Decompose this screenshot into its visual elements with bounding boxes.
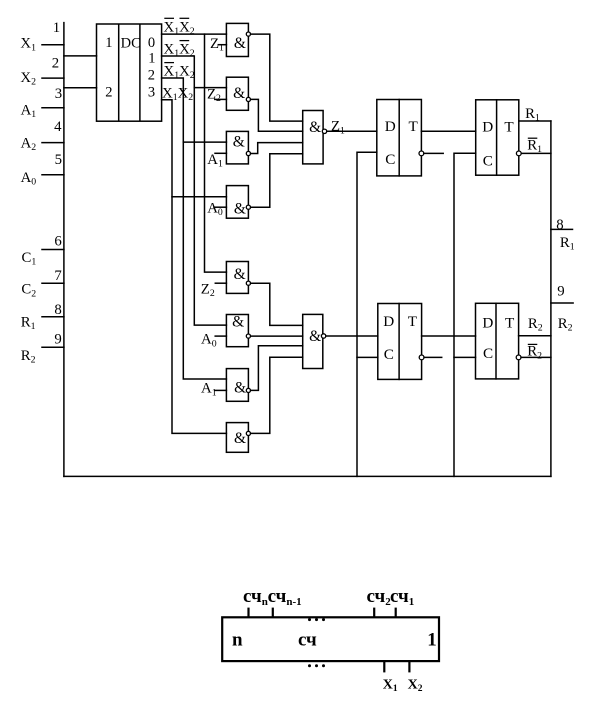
output tap 9 R2 <box>551 302 573 304</box>
svg-text:4: 4 <box>54 119 62 135</box>
wire D3 output to top AND-4 input3 <box>251 143 303 154</box>
wire Z1 from U2 to trigger T1 D input <box>327 130 377 132</box>
label X1neg X2neg on out0 <box>164 18 195 37</box>
svg-text:&: & <box>234 266 246 283</box>
label X1neg X2 on out2 <box>164 63 195 82</box>
wire DC out1 vertical <box>162 56 227 325</box>
wire branch out0 down to gate D5 <box>205 34 227 272</box>
bottom bus <box>64 475 551 477</box>
wire T1 Q-bar stub <box>424 152 443 154</box>
gate D6 (NAND &) <box>215 315 250 347</box>
svg-text:9: 9 <box>54 332 61 348</box>
svg-text:&: & <box>309 328 321 345</box>
wire DC input 1 <box>64 55 97 57</box>
decoder U1 DC <box>97 24 162 121</box>
gate U3 bottom 4-input NAND <box>303 314 326 368</box>
svg-text:&: & <box>309 119 321 136</box>
svg-text:C: C <box>384 346 394 363</box>
svg-text:&: & <box>234 35 246 52</box>
gate D1 (NAND &) <box>218 23 250 56</box>
svg-text:C: C <box>385 151 395 168</box>
svg-text:2: 2 <box>105 85 112 101</box>
wire branch out3 to gate D4 <box>172 196 226 198</box>
counter section labels <box>232 629 437 650</box>
svg-text:8: 8 <box>556 217 563 233</box>
svg-text:3: 3 <box>55 86 62 102</box>
wire D7 output to bottom AND-4 input3 <box>251 346 303 391</box>
wire branch out1 to gate D2 <box>194 87 226 89</box>
wire DC out2 vertical <box>162 78 227 379</box>
svg-text:&: & <box>234 430 246 447</box>
svg-text:1: 1 <box>148 51 155 67</box>
wire DC out0 to gate D1 <box>162 33 227 35</box>
svg-text:сч: сч <box>298 629 317 650</box>
pin 1 tick <box>42 44 64 46</box>
wire branch out2 to gate D3 <box>183 141 226 143</box>
svg-text:8: 8 <box>54 302 61 318</box>
svg-text:&: & <box>233 134 245 151</box>
label X1 X2 on out3 <box>162 85 193 103</box>
pin 9 tick <box>42 346 64 348</box>
trigger T1 (D flip-flop) <box>377 100 424 176</box>
wire T3 Q-bar stub <box>424 356 442 358</box>
pin number labels <box>52 20 62 348</box>
svg-text:n: n <box>232 629 243 650</box>
counter bottom labels X1 X2 <box>383 678 423 695</box>
svg-text:&: & <box>234 200 246 217</box>
wire from U3 to trigger T3 D input <box>326 335 378 337</box>
svg-text:9: 9 <box>557 283 564 299</box>
left input rail <box>63 23 65 477</box>
trigger T4 (D flip-flop) <box>476 303 521 379</box>
label X1 X2neg on out1 <box>164 41 195 60</box>
svg-text:T: T <box>504 118 514 135</box>
wire clock vertical to T2 C input <box>454 153 476 476</box>
wire T3 T-output to T4 D input <box>422 335 476 337</box>
gate U2 top 4-input NAND <box>303 111 327 164</box>
wire D8 output to bottom AND-4 input4 <box>251 357 303 433</box>
wire D6 output to bottom AND-4 input2 <box>251 335 303 337</box>
svg-text:C: C <box>483 153 493 170</box>
wire DC out3 vertical <box>162 100 227 434</box>
gate D4 (NAND &) <box>214 186 250 219</box>
gate D2 (NAND &) <box>215 77 251 110</box>
wire T1 T-output to T2 D input <box>421 130 475 132</box>
right output rail <box>550 121 552 476</box>
svg-text:6: 6 <box>54 233 61 249</box>
wire R2 output of T4 <box>519 335 551 337</box>
label R1-bar output <box>527 138 542 156</box>
pin 8 tick <box>42 316 64 318</box>
svg-text:D: D <box>383 313 394 330</box>
svg-text:5: 5 <box>55 152 62 168</box>
counter stub cch-1 <box>395 608 397 618</box>
svg-text:0: 0 <box>148 35 155 51</box>
gate D8 (NAND &) <box>226 423 250 453</box>
output tap 8 R1 <box>551 228 573 230</box>
wire D1 output to top AND-4 input1 <box>251 34 303 121</box>
trigger T3 (D flip-flop) <box>378 304 424 380</box>
counter stub X1 <box>383 661 385 672</box>
svg-text:D: D <box>482 314 493 331</box>
wire D5 output to bottom AND-4 input1 <box>251 283 303 325</box>
wire R1-bar output of T2 <box>521 152 551 154</box>
ellipsis top <box>308 618 325 621</box>
counter stub X2 <box>408 661 410 672</box>
gate D7 (NAND &) <box>215 369 251 402</box>
svg-text:D: D <box>385 118 396 135</box>
svg-text:1: 1 <box>105 35 112 51</box>
wire clock vertical to T1 C input <box>357 152 377 476</box>
svg-text:3: 3 <box>148 85 155 101</box>
svg-text:T: T <box>505 314 515 331</box>
wire R2-bar output of T4 <box>521 356 551 358</box>
gate D3 (NAND &) <box>215 131 250 164</box>
counter stub cch-2 <box>373 608 375 618</box>
svg-text:7: 7 <box>54 268 61 284</box>
svg-text:1: 1 <box>53 20 60 36</box>
pin 6 tick <box>42 249 64 251</box>
svg-text:DC: DC <box>121 35 141 51</box>
svg-text:&: & <box>233 85 245 102</box>
svg-text:1: 1 <box>427 629 437 650</box>
pin 7 tick <box>42 282 64 284</box>
ellipsis bottom <box>308 664 325 667</box>
wire R1 output of T2 <box>519 120 551 122</box>
svg-text:D: D <box>482 118 493 135</box>
svg-text:&: & <box>232 314 244 331</box>
wire DC input 2 <box>64 87 97 89</box>
counter stub cch-n <box>247 608 249 618</box>
wire clock branch to T4 C input <box>454 356 476 358</box>
pin 5 tick <box>42 174 64 176</box>
trigger T2 (D flip-flop) <box>476 100 521 175</box>
pin 3 tick <box>42 107 64 109</box>
gate D5 (NAND &) <box>215 262 250 294</box>
svg-text:C: C <box>483 345 493 362</box>
pin 4 tick <box>42 142 64 144</box>
svg-text:&: & <box>234 380 246 397</box>
counter block CT <box>222 608 439 673</box>
svg-text:2: 2 <box>52 56 59 72</box>
wire D2 output to top AND-4 input2 <box>251 99 303 131</box>
wire clock branch to T3 C input <box>357 356 378 358</box>
pin name labels <box>20 36 36 366</box>
wire D4 output to top AND-4 input4 <box>251 154 303 208</box>
svg-text:T: T <box>408 313 418 330</box>
svg-text:T: T <box>409 118 419 135</box>
counter stub cch-n-1 <box>272 608 274 618</box>
label R2-bar output <box>527 344 542 362</box>
pin 2 tick <box>42 77 64 79</box>
svg-text:2: 2 <box>148 67 155 83</box>
counter top labels <box>243 586 414 608</box>
